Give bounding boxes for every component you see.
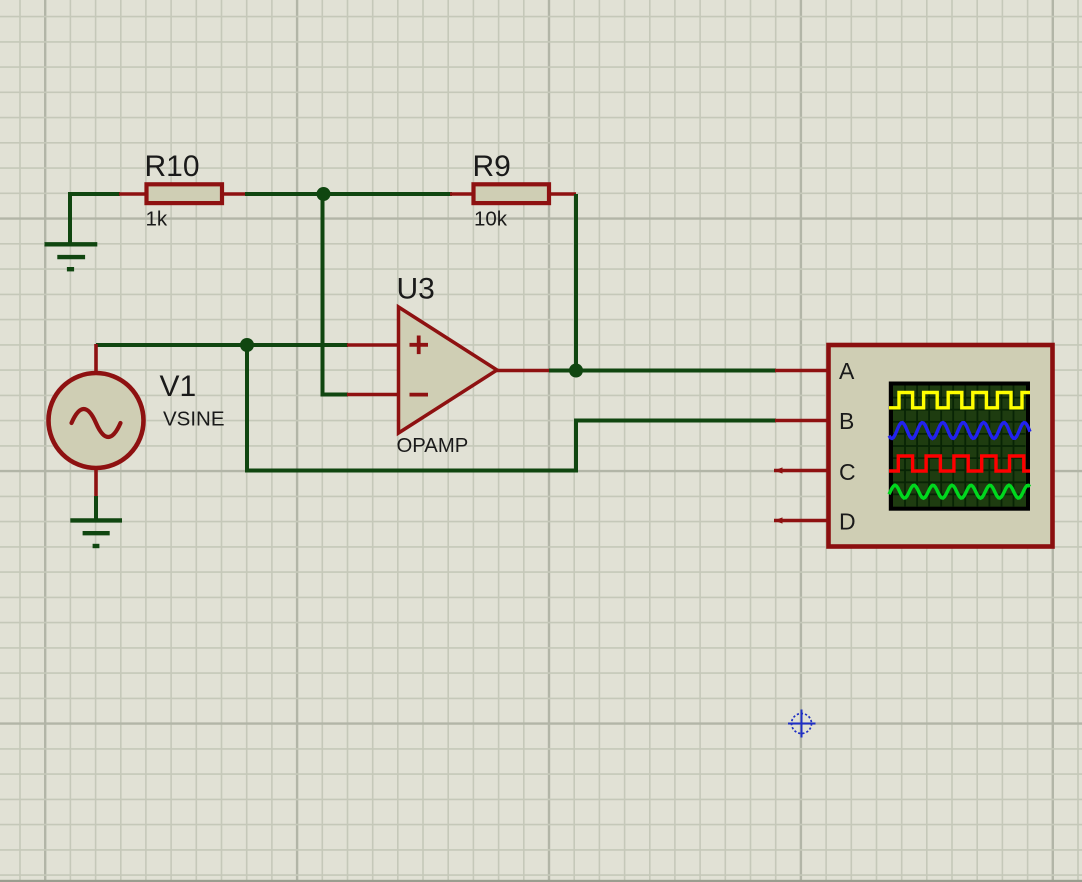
node A junction [317,187,331,201]
wire V1 to gnd2 [94,496,98,521]
node C junction (output) [569,364,583,378]
svg-text:VSINE: VSINE [163,408,225,431]
oscilloscope body [774,345,1053,547]
svg-text:B: B [839,408,854,434]
svg-text:U3: U3 [397,272,435,305]
trace channel D (green sine) [889,485,1030,498]
wire node C to scope channel A [576,369,776,373]
wire op-amp output to node C [549,369,576,373]
op-amp U3 [347,272,551,457]
wire R9 down to output node [574,194,578,371]
node B junction (V1 branch) [240,338,254,352]
wire V1 to non-inverting input [96,343,348,347]
ground symbol (below V1) [70,520,122,546]
svg-text:D: D [839,509,856,535]
wire node B to scope channel B (feedback run) [247,345,776,471]
trace channel A (yellow square) [889,393,1030,408]
svg-text:OPAMP: OPAMP [397,435,469,457]
svg-text:1k: 1k [146,207,168,230]
trace channel B (blue sine) [889,423,1030,439]
origin marker crosshair [788,710,816,738]
pin A [775,369,828,373]
pin B [775,419,828,423]
svg-text:A: A [839,358,855,384]
wire gnd1 to R10 [70,194,120,244]
trace channel C (red square) [889,456,1030,471]
sine source V1 [49,344,225,497]
pin D [774,519,828,523]
svg-text:R9: R9 [473,150,511,183]
wire node A to R9 [324,192,453,196]
ground symbol (top-left) [45,244,98,269]
svg-text:V1: V1 [160,370,197,403]
svg-text:R10: R10 [145,150,200,183]
svg-text:C: C [839,459,856,485]
svg-text:10k: 10k [474,207,508,230]
resistor R10 [119,150,247,231]
resistor R9 [450,150,576,231]
scope screen [889,382,1030,511]
wire node A down to inverting input [323,194,349,395]
wire R10 to node A [245,192,323,196]
pin C [774,469,828,473]
